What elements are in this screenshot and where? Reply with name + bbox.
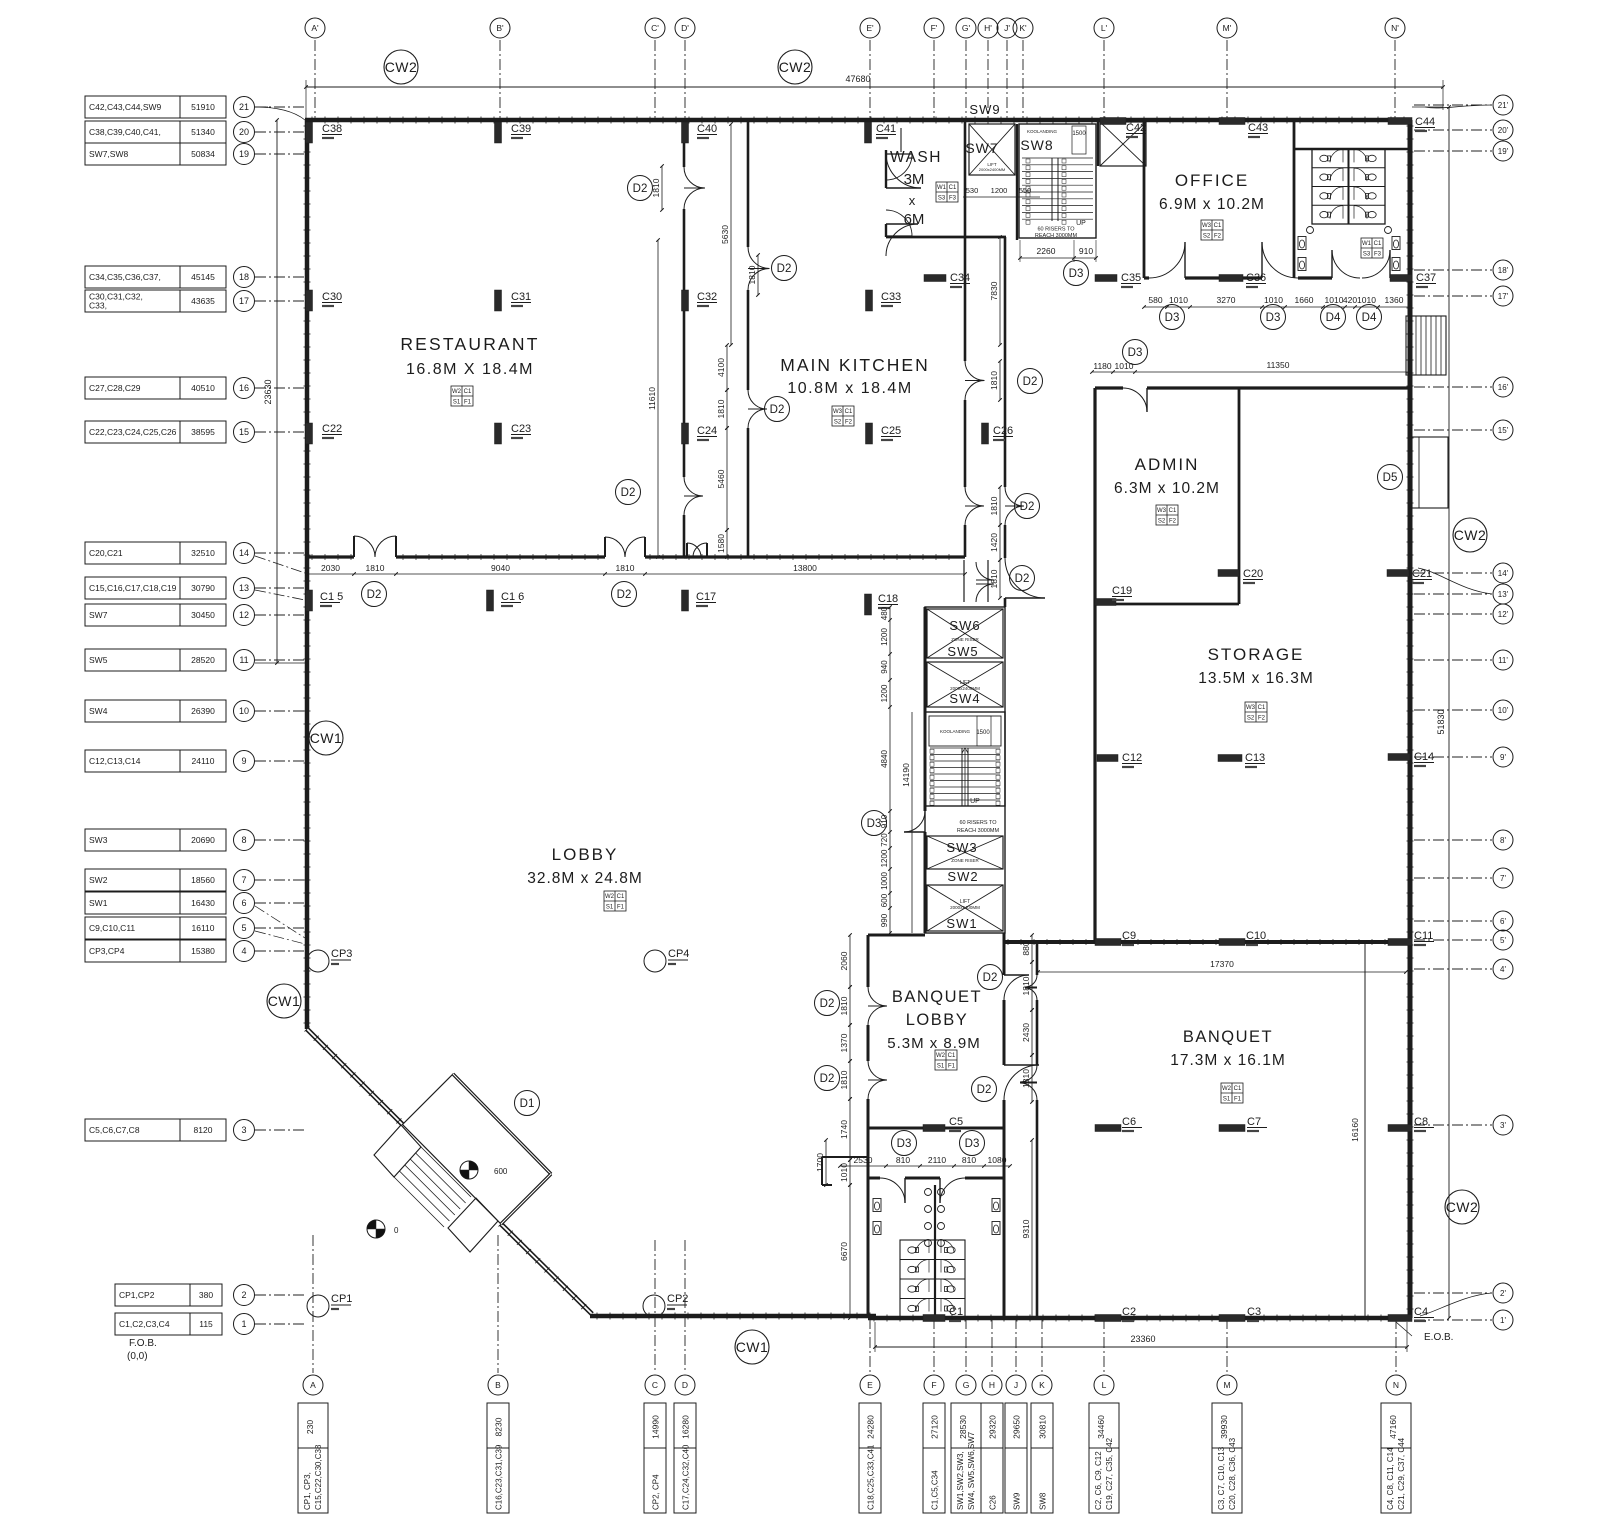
wall: kitchen east (964, 120, 967, 361)
svg-text:H': H' (984, 23, 992, 33)
svg-text:RESTAURANT: RESTAURANT (400, 334, 539, 354)
shear wall SW6 crossed box (927, 609, 1003, 658)
door: storage west D2 upper (1005, 487, 1024, 506)
door: kitchen east D2 lower (965, 487, 984, 506)
door: kitchen east D2 upper (965, 361, 985, 381)
svg-text:4: 4 (241, 946, 246, 956)
svg-text:51830: 51830 (1436, 709, 1446, 734)
svg-text:2530: 2530 (854, 1155, 873, 1165)
svg-text:SW1: SW1 (946, 916, 977, 931)
svg-text:SW8: SW8 (1039, 1492, 1048, 1510)
door tag D2 at 827,1078 (815, 1066, 840, 1091)
svg-text:600: 600 (880, 893, 889, 907)
svg-text:F1: F1 (617, 905, 625, 911)
svg-text:5630: 5630 (720, 225, 730, 244)
svg-text:47160: 47160 (1388, 1415, 1398, 1439)
svg-text:W3: W3 (833, 409, 843, 415)
svg-text:810: 810 (896, 1155, 910, 1165)
svg-text:17370: 17370 (1210, 959, 1234, 969)
svg-text:N: N (1393, 1380, 1399, 1390)
svg-text:2000x2400MM: 2000x2400MM (950, 905, 980, 910)
svg-text:15: 15 (239, 427, 249, 437)
door tag D3 at 1135,352 (1123, 340, 1148, 365)
door tag D2 at 1027,506 (1015, 494, 1040, 519)
wall: banquet lobby east x1004 (1003, 933, 1006, 975)
vdim kitchen east 1810a (999, 361, 1001, 400)
svg-text:5': 5' (1500, 936, 1506, 945)
door: banquet lobby east D2 upper (1004, 975, 1029, 1000)
svg-text:C3: C3 (1247, 1306, 1261, 1318)
column C36 (1219, 275, 1243, 282)
svg-text:115: 115 (199, 1319, 213, 1329)
curtain wall tag CW1 left lower (267, 984, 301, 1018)
door tag D2 at 374,594 (362, 582, 387, 607)
door: office toilet D3 door (1262, 242, 1298, 278)
svg-text:C1 5: C1 5 (320, 591, 343, 603)
svg-text:4': 4' (1500, 965, 1506, 974)
survey marker 600 (460, 1161, 478, 1179)
column C13 (1218, 755, 1242, 762)
column C4 (1388, 1315, 1412, 1322)
svg-text:C17: C17 (696, 591, 716, 603)
svg-text:1180: 1180 (1093, 361, 1112, 371)
svg-text:8': 8' (1500, 836, 1506, 845)
svg-text:12': 12' (1498, 610, 1509, 619)
door tag D2 at 784,268 (772, 256, 797, 281)
banquet tagbox (1221, 1083, 1243, 1103)
svg-text:3': 3' (1500, 1121, 1506, 1130)
svg-text:1010: 1010 (1264, 295, 1283, 305)
svg-text:16: 16 (239, 383, 249, 393)
control point CP4 (644, 950, 666, 972)
svg-text:18560: 18560 (191, 875, 215, 885)
grid lines vertical (bottom A-N) (312, 1235, 314, 1373)
svg-text:39930: 39930 (1219, 1415, 1229, 1439)
svg-text:5460: 5460 (716, 469, 726, 488)
entrance vestibule rotated square (403, 1074, 552, 1224)
svg-text:D2: D2 (617, 589, 632, 601)
toilet stalls bottom block (900, 1240, 965, 1318)
wall: toilet entry notch (822, 1156, 868, 1158)
column C38 (306, 122, 313, 143)
svg-text:28520: 28520 (191, 655, 215, 665)
door tag D2 at 827,1003 (815, 991, 840, 1016)
svg-text:32.8M x 24.8M: 32.8M x 24.8M (527, 870, 643, 887)
vdim kitchen east 7830 (999, 237, 1001, 345)
column C2 (1095, 1315, 1121, 1322)
svg-text:BANQUET: BANQUET (1183, 1028, 1273, 1046)
svg-text:K: K (1039, 1380, 1045, 1390)
curtain wall tag CW1 left upper (309, 721, 343, 755)
svg-text:720: 720 (880, 833, 889, 847)
svg-text:D3: D3 (1266, 312, 1281, 324)
svg-text:CW2: CW2 (1454, 527, 1487, 543)
svg-text:C21, C29, C37, C44: C21, C29, C37, C44 (1397, 1437, 1406, 1510)
svg-text:D3: D3 (1165, 312, 1180, 324)
svg-text:C1: C1 (845, 409, 853, 415)
overall right dimension 51830 (1448, 107, 1450, 1318)
svg-text:L': L' (1101, 23, 1108, 33)
svg-text:13': 13' (1498, 590, 1509, 599)
svg-text:E: E (867, 1380, 873, 1390)
wall: admin west x1095 (storage west) (1093, 388, 1096, 942)
svg-text:C38: C38 (322, 123, 342, 135)
svg-text:CP3: CP3 (331, 948, 352, 960)
vdim restaurant D2 1810 (C40) (661, 166, 663, 210)
door: restaurant south double door east (605, 537, 625, 557)
lift 2 crossed box (top, by C42) (1100, 122, 1146, 166)
svg-text:60 RISERS TO: 60 RISERS TO (1037, 227, 1075, 233)
door tag D2 at 1030,381 (1018, 369, 1043, 394)
svg-text:C21: C21 (1412, 568, 1432, 580)
wall: exterior top (305, 118, 1412, 123)
svg-text:C1: C1 (1169, 508, 1177, 514)
svg-text:ZONE RISER: ZONE RISER (951, 637, 979, 642)
svg-text:C1: C1 (1258, 705, 1266, 711)
svg-text:W2: W2 (452, 389, 462, 395)
svg-text:14': 14' (1498, 569, 1509, 578)
svg-text:1660: 1660 (1295, 295, 1314, 305)
svg-text:CW2: CW2 (1446, 1199, 1479, 1215)
wall: wash south (886, 236, 1006, 239)
svg-text:9040: 9040 (491, 563, 510, 573)
svg-text:C22,C23,C24,C25,C26: C22,C23,C24,C25,C26 (89, 427, 177, 437)
svg-text:580: 580 (1148, 295, 1162, 305)
svg-text:D3: D3 (897, 1138, 912, 1150)
door tag D4 at 1369,317 (1357, 305, 1382, 330)
svg-text:C43: C43 (1248, 122, 1268, 134)
curtain wall tag CW2 right upper (1453, 518, 1487, 552)
svg-text:1810: 1810 (366, 563, 385, 573)
svg-text:1200: 1200 (880, 684, 889, 702)
svg-text:W2: W2 (936, 1053, 946, 1059)
column C37 (1390, 275, 1412, 282)
vdim corridor 1580 (726, 530, 728, 557)
svg-text:480: 480 (880, 606, 889, 620)
grid bubbles top A'-N' (305, 18, 325, 38)
vdim banquet lobby right chain (1031, 935, 1033, 962)
svg-text:C1: C1 (1214, 223, 1222, 229)
svg-text:40510: 40510 (191, 383, 215, 393)
door tag D3 at 1172,317 (1160, 305, 1185, 330)
svg-text:1370: 1370 (839, 1033, 849, 1052)
office toilet stall doors+fixtures (1320, 155, 1331, 161)
svg-text:C': C' (651, 23, 659, 33)
svg-text:D': D' (681, 23, 689, 33)
column C17 (682, 590, 689, 611)
svg-text:29650: 29650 (1012, 1415, 1022, 1439)
svg-text:W3: W3 (1202, 223, 1212, 229)
svg-text:C1: C1 (949, 1306, 963, 1318)
svg-text:9: 9 (241, 756, 246, 766)
svg-text:1700: 1700 (815, 1153, 825, 1172)
svg-text:2000x2400MM: 2000x2400MM (979, 167, 1005, 172)
svg-text:BANQUET: BANQUET (892, 988, 982, 1006)
svg-text:L: L (1102, 1380, 1107, 1390)
curtain wall tag CW2 top right (778, 50, 812, 84)
svg-text:16160: 16160 (1350, 1118, 1360, 1142)
toilet urinals left (873, 1199, 881, 1212)
door: wash exit arc (886, 210, 912, 236)
svg-text:16': 16' (1498, 383, 1509, 392)
svg-text:W1: W1 (937, 185, 947, 191)
svg-text:C1: C1 (948, 1053, 956, 1059)
svg-text:E.O.B.: E.O.B. (1424, 1332, 1453, 1343)
svg-text:C18,C25,C33,C41: C18,C25,C33,C41 (867, 1444, 876, 1510)
svg-text:21': 21' (1498, 101, 1509, 110)
grid lines horizontal (left 1-21) (255, 106, 306, 108)
door: admin entry D3 (1123, 388, 1147, 412)
svg-text:C5,C6,C7,C8: C5,C6,C7,C8 (89, 1125, 140, 1135)
svg-text:51910: 51910 (191, 102, 215, 112)
bottom coordinate tables A-N (298, 1403, 328, 1513)
svg-text:F3: F3 (949, 196, 957, 202)
wall: restaurant east (683, 120, 686, 167)
svg-text:530: 530 (966, 186, 979, 195)
leader circle 21 to corner (255, 107, 305, 120)
svg-text:M: M (1223, 1380, 1230, 1390)
wall: banquet lobby west x868 (867, 935, 870, 987)
wall: exterior bottom (lobby south) (590, 1314, 876, 1319)
svg-text:1200: 1200 (880, 628, 889, 646)
svg-text:SW7,SW8: SW7,SW8 (89, 149, 128, 159)
svg-text:CP4: CP4 (668, 948, 689, 960)
svg-text:C20,C21: C20,C21 (89, 548, 123, 558)
door tag D3 at 904,1143 (892, 1131, 917, 1156)
svg-text:D2: D2 (770, 404, 785, 416)
column C7 (1219, 1125, 1245, 1132)
svg-text:15': 15' (1498, 426, 1509, 435)
column C22 (306, 423, 313, 444)
svg-text:1810: 1810 (1021, 1069, 1031, 1088)
column C39 (495, 122, 502, 143)
svg-text:1810: 1810 (651, 178, 661, 197)
svg-text:D2: D2 (1023, 376, 1038, 388)
svg-text:17': 17' (1498, 292, 1509, 301)
door: core D3 to lobby (904, 811, 925, 832)
lift SW7 crossed box (top) (969, 124, 1015, 175)
vdim corridor 5630 (730, 124, 732, 345)
door: corridor D2 upper (748, 247, 770, 269)
svg-text:C25: C25 (881, 425, 901, 437)
leader right 2' (1420, 1293, 1492, 1316)
svg-text:C24: C24 (697, 425, 717, 437)
svg-text:SW5: SW5 (89, 655, 108, 665)
grid bubbles bottom A-N (303, 1375, 323, 1395)
door tag D4 at 1333,317 (1321, 305, 1346, 330)
svg-text:1010: 1010 (1115, 361, 1134, 371)
svg-text:D4: D4 (1362, 312, 1377, 324)
door tag D3 at 874,823 (862, 811, 887, 836)
svg-text:C1,C5,C34: C1,C5,C34 (931, 1470, 940, 1510)
stair SW8 box (1019, 124, 1096, 238)
svg-text:1810: 1810 (989, 569, 999, 588)
svg-text:9': 9' (1500, 753, 1506, 762)
svg-text:SW3: SW3 (946, 840, 977, 855)
svg-text:11610: 11610 (647, 387, 657, 410)
svg-text:19: 19 (239, 149, 249, 159)
svg-text:16.8M X 18.4M: 16.8M X 18.4M (406, 361, 534, 378)
wall: banquet inner line x1365 (1364, 942, 1366, 1318)
svg-text:1740: 1740 (839, 1120, 849, 1139)
stair core landing (929, 716, 1001, 746)
svg-text:12: 12 (239, 610, 249, 620)
svg-text:D2: D2 (367, 589, 382, 601)
stair core box (925, 712, 1005, 806)
svg-text:C34: C34 (950, 272, 970, 284)
svg-text:2030: 2030 (321, 563, 340, 573)
svg-text:D4: D4 (1326, 312, 1341, 324)
column C23 (495, 423, 502, 444)
overall left dimension 23630 (276, 120, 278, 663)
svg-text:W3: W3 (1246, 705, 1256, 711)
svg-text:38595: 38595 (191, 427, 215, 437)
svg-text:27120: 27120 (930, 1415, 940, 1439)
door: toilet D4 door a (1332, 250, 1360, 278)
wall: admin north y388 (1095, 386, 1123, 389)
wall: core west x925 (924, 607, 927, 811)
column C42 (1100, 118, 1126, 125)
svg-text:C23: C23 (511, 423, 531, 435)
column C19 (1095, 599, 1116, 606)
svg-text:C1: C1 (1234, 1086, 1242, 1092)
svg-text:N': N' (1391, 23, 1399, 33)
wall: admin east x1239 (1238, 388, 1241, 604)
svg-text:W2: W2 (605, 894, 615, 900)
column C20 (1218, 570, 1239, 577)
svg-text:6670: 6670 (839, 1242, 849, 1261)
svg-text:13: 13 (239, 583, 249, 593)
svg-text:1580: 1580 (716, 534, 726, 553)
svg-text:29320: 29320 (988, 1415, 998, 1439)
svg-text:ADMIN: ADMIN (1135, 455, 1200, 474)
door tag D3 at 972,1143 (960, 1131, 985, 1156)
svg-text:8120: 8120 (194, 1125, 213, 1135)
dim: banquet 17370 (1038, 971, 1406, 973)
svg-text:C1,C2,C3,C4: C1,C2,C3,C4 (119, 1319, 170, 1329)
wall: kitchen corridor west (747, 120, 750, 247)
svg-text:45145: 45145 (191, 272, 215, 282)
entrance ramp lines (394, 1177, 444, 1227)
svg-text:C20, C28, C36, C43: C20, C28, C36, C43 (1228, 1437, 1237, 1510)
door: banquet west D2 lower (1020, 1065, 1037, 1082)
svg-text:C1: C1 (1374, 241, 1382, 247)
leader circle 13 (255, 590, 305, 600)
svg-text:2060: 2060 (839, 951, 849, 970)
svg-text:SW7: SW7 (89, 610, 108, 620)
vdim banquet lobby left chain (849, 935, 851, 987)
svg-text:C40: C40 (697, 123, 717, 135)
svg-text:21: 21 (239, 102, 249, 112)
vdim D2 door kitchen 1810 (757, 255, 759, 295)
dim row restaurant south (307, 573, 965, 575)
svg-text:CW1: CW1 (310, 730, 343, 746)
wall: exterior diagonal upper (307, 1029, 403, 1125)
svg-text:F2: F2 (1214, 234, 1222, 240)
svg-text:C2: C2 (1122, 1306, 1136, 1318)
office toilet tagbox (1361, 238, 1383, 258)
svg-text:D2: D2 (977, 1084, 992, 1096)
svg-text:47680: 47680 (845, 74, 870, 84)
wall: exterior right (1408, 120, 1413, 1318)
svg-text:C7: C7 (1247, 1116, 1261, 1128)
control point CP2 (643, 1295, 665, 1317)
svg-text:10: 10 (239, 706, 249, 716)
vdim corridor 5460 (726, 428, 728, 530)
svg-text:5.3M x 8.9M: 5.3M x 8.9M (887, 1035, 981, 1052)
svg-text:J': J' (1004, 23, 1010, 33)
svg-text:1360: 1360 (1385, 295, 1404, 305)
vdim kitchen east 1420 (999, 525, 1001, 560)
wall: toilet top y149 (1294, 148, 1410, 150)
svg-text:D2: D2 (777, 263, 792, 275)
door tag D3 at 1076,273 (1064, 261, 1089, 286)
door: restaurant east D2 upper (684, 167, 705, 188)
column C6 (1095, 1125, 1121, 1132)
svg-text:11: 11 (239, 655, 248, 665)
svg-text:F: F (931, 1380, 936, 1390)
door: restaurant south double door west (354, 536, 375, 557)
svg-text:6': 6' (1500, 917, 1506, 926)
svg-text:A: A (310, 1380, 316, 1390)
svg-text:C1: C1 (949, 185, 957, 191)
svg-text:1': 1' (1500, 1316, 1506, 1325)
door: kitchen corridor double door (687, 543, 701, 557)
office urinals right (1392, 237, 1400, 250)
svg-text:13800: 13800 (793, 563, 817, 573)
wall: corridor south y1178 (868, 1177, 880, 1180)
curtain wall tag CW2 right lower (1445, 1190, 1479, 1224)
column C21 (1387, 570, 1409, 577)
svg-text:4100: 4100 (716, 358, 726, 377)
svg-text:230: 230 (305, 1420, 315, 1434)
wash tagbox (936, 182, 958, 202)
svg-text:SW8: SW8 (1020, 137, 1053, 153)
svg-text:CP2, CP4: CP2, CP4 (652, 1474, 661, 1510)
column C40 (682, 122, 689, 143)
svg-text:D2: D2 (983, 972, 998, 984)
column C26 (982, 423, 989, 444)
svg-text:810: 810 (962, 1155, 976, 1165)
svg-text:2: 2 (241, 1290, 246, 1300)
stair core treads (930, 747, 1000, 749)
column C8 (1388, 1125, 1412, 1132)
wall: lift-stair divider (1016, 124, 1018, 240)
svg-text:23630: 23630 (263, 379, 273, 404)
door: toilet east door (940, 1178, 965, 1203)
column C30 (306, 290, 313, 311)
svg-text:16280: 16280 (681, 1415, 691, 1439)
svg-text:C3, C7, C10, C13: C3, C7, C10, C13 (1217, 1446, 1226, 1510)
svg-text:G': G' (962, 23, 971, 33)
svg-text:ZONE RISER: ZONE RISER (951, 858, 979, 863)
kitchen tagbox (832, 406, 854, 426)
left coordinate tables rows 1-21 (85, 96, 226, 118)
column C1 (923, 1315, 945, 1322)
svg-text:1500: 1500 (976, 730, 990, 736)
column C18 (865, 594, 872, 615)
svg-text:550: 550 (1019, 186, 1032, 195)
svg-text:SW7: SW7 (965, 140, 998, 156)
svg-text:7830: 7830 (989, 281, 999, 300)
svg-text:SW4, SW5,SW6,SW7: SW4, SW5,SW6,SW7 (967, 1431, 976, 1510)
svg-text:S1: S1 (453, 400, 461, 406)
svg-text:W2: W2 (1222, 1086, 1232, 1092)
door: banquet lobby east D2 lower (1004, 1065, 1039, 1100)
admin tagbox (1156, 505, 1178, 525)
svg-text:C12: C12 (1122, 752, 1142, 764)
svg-text:C15,C22,C30,C38: C15,C22,C30,C38 (314, 1444, 323, 1510)
